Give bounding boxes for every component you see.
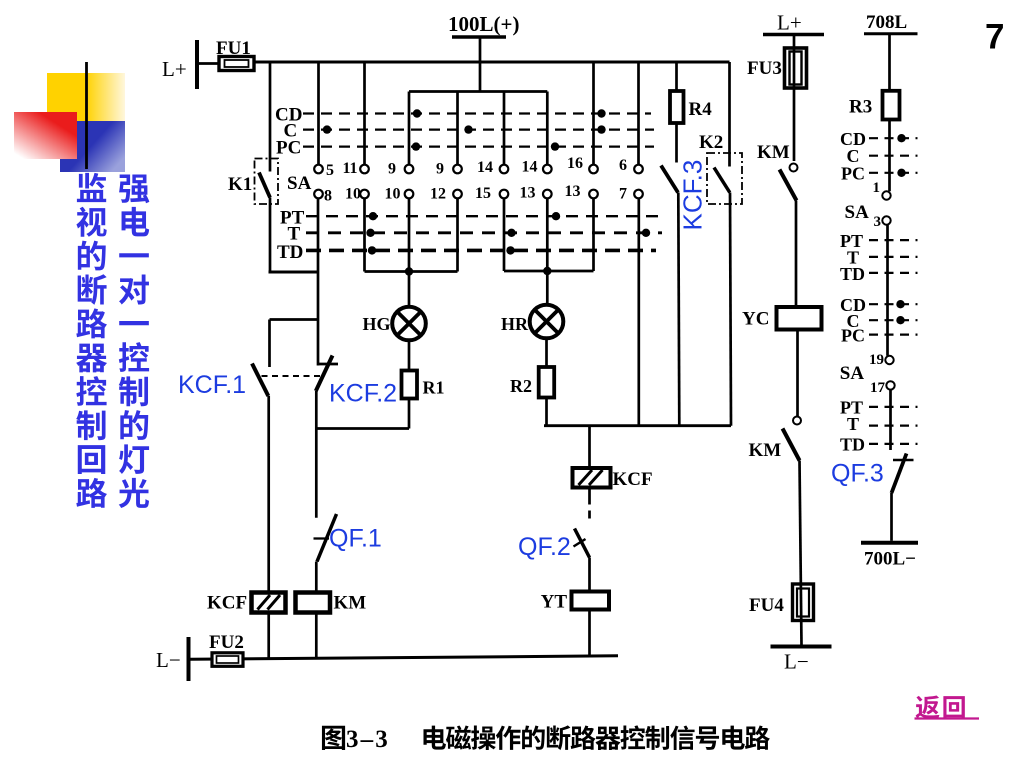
wire K1 bottom link <box>269 271 319 274</box>
wire R1 down <box>408 399 411 429</box>
wire dashed row CD <box>303 112 651 114</box>
SA contact terminal 9 (top row col 4) <box>453 165 462 174</box>
L+ right terminal bar <box>763 33 824 37</box>
wire KCF coil to bus <box>267 612 270 660</box>
svg-text:K2: K2 <box>699 132 723 153</box>
wire KCF.2 down to QF.1 <box>315 391 318 518</box>
relay K1 wire from bus <box>269 62 272 172</box>
700L- terminal bar <box>861 541 918 545</box>
wire col6 down to HR <box>546 198 549 305</box>
wire col4 down <box>456 198 459 271</box>
svg-text:7: 7 <box>985 18 1004 57</box>
svg-text:KCF: KCF <box>613 469 653 490</box>
contact QF.3 blade <box>892 454 907 494</box>
svg-text:TD: TD <box>840 264 865 284</box>
svg-text:19: 19 <box>869 352 884 368</box>
relay K1 contact blade <box>259 173 270 198</box>
svg-text:5: 5 <box>326 162 334 179</box>
fuse FU2 <box>212 653 243 667</box>
SA right contact 1 <box>882 191 890 199</box>
SA contact terminal 8 (bottom row col 1) <box>314 190 323 199</box>
L- terminal bar <box>187 637 191 681</box>
wire dashed rows right group3 <box>869 303 918 305</box>
svg-text:T: T <box>847 414 859 434</box>
svg-text:13: 13 <box>565 183 581 200</box>
wire KM coil to bus <box>315 611 318 659</box>
SA closed-position dots on rows <box>413 109 421 117</box>
contactor coil KM <box>296 593 331 613</box>
100L(+) terminal bar <box>452 35 506 39</box>
wire 100L(+) feed <box>479 37 482 92</box>
contact QF.3 tick <box>893 459 914 462</box>
wire dashed row C <box>303 129 654 131</box>
SA contact terminal 12 (bottom row col 4) <box>453 190 462 199</box>
wire bus to R4 <box>675 62 678 91</box>
wire bottom connector cols 15-13 <box>504 270 594 273</box>
wire bottom connector cols 10-12 <box>365 270 458 273</box>
svg-text:16: 16 <box>567 155 583 172</box>
wire HG to R1 <box>408 340 411 371</box>
logo yellow square <box>47 73 125 121</box>
wire dashed row T <box>306 231 662 234</box>
relay K2 contact blade <box>714 168 730 193</box>
svg-text:10: 10 <box>345 186 361 203</box>
svg-text:R4: R4 <box>689 99 713 120</box>
wire L+ to FU1 <box>197 62 219 65</box>
svg-text:PC: PC <box>841 326 865 346</box>
relay K2 box <box>707 153 742 204</box>
svg-text:L−: L− <box>156 648 181 672</box>
wire KM to FU4 <box>800 461 802 646</box>
fuse FU4 <box>793 584 814 621</box>
wire comb header <box>409 90 547 93</box>
SA contact terminal 11 (top row col 2) <box>360 165 369 174</box>
svg-text:3: 3 <box>346 726 359 753</box>
svg-text:L−: L− <box>784 650 809 674</box>
dots right group1 <box>897 134 905 142</box>
L- right terminal bar <box>771 645 832 649</box>
svg-text:7: 7 <box>619 186 627 203</box>
svg-text:10: 10 <box>385 186 401 203</box>
svg-text:SA: SA <box>840 363 865 384</box>
wire R4 down <box>675 123 678 163</box>
wire YT to negative bus <box>588 609 591 657</box>
contact QF.2 blade <box>575 529 590 558</box>
wire QF.1 to KM coil <box>315 562 318 593</box>
svg-text:L+: L+ <box>162 57 187 81</box>
wire bus drop x=593.5 <box>592 62 595 165</box>
svg-text:1: 1 <box>873 180 881 196</box>
wire QF.2 to YT <box>588 558 591 593</box>
svg-text:700L−: 700L− <box>864 549 916 570</box>
svg-text:8: 8 <box>324 188 332 205</box>
contact KCF.2 bar <box>318 363 339 366</box>
wire dashed rows right group4 <box>869 406 918 408</box>
svg-text:YT: YT <box>541 592 568 613</box>
relay coil KCF (right) <box>573 468 611 488</box>
svg-text:KM: KM <box>749 440 782 461</box>
svg-text:PC: PC <box>276 138 301 159</box>
wire YC down <box>796 330 799 417</box>
hyperlink 返回 (return) <box>916 695 940 718</box>
fuse FU1 <box>219 57 254 71</box>
wire KCF.1 upper <box>268 320 271 368</box>
svg-text:KM: KM <box>757 142 790 163</box>
svg-text:KCF.1: KCF.1 <box>178 371 246 399</box>
wire dashed rows right group2 <box>869 239 918 241</box>
wire KCF.1 top link <box>270 318 318 321</box>
SA contact terminal 15 (bottom row col 5) <box>500 190 509 199</box>
dots right group3 <box>896 300 904 308</box>
lamp HR <box>530 305 564 339</box>
relay coil KCF (left) <box>252 593 286 613</box>
wire comb drop x=547.3 <box>546 92 549 165</box>
wire col3 down to HG <box>408 198 411 307</box>
coil YT <box>572 592 610 610</box>
logo blue square <box>60 121 125 172</box>
svg-text:TD: TD <box>840 435 865 455</box>
SA contact terminal 5 (top row col 1) <box>314 165 323 174</box>
SA contact terminal 14 (top row col 5) <box>500 165 509 174</box>
wire 708L to R3 <box>888 34 891 91</box>
svg-text:QF.3: QF.3 <box>831 460 884 488</box>
node junction HG feed <box>405 267 413 275</box>
SA right contact 17 <box>886 381 894 389</box>
wire col5 down <box>503 198 506 271</box>
caption 图3-3 电磁操作的断路器控制信号电路 <box>322 726 345 750</box>
svg-text:KCF.3: KCF.3 <box>678 160 708 231</box>
svg-text:PC: PC <box>841 164 865 184</box>
svg-text:9: 9 <box>388 161 396 178</box>
SA contact terminal 16 (top row col 7) <box>589 165 598 174</box>
svg-text:KM: KM <box>334 593 367 614</box>
resistor R3 <box>883 91 900 120</box>
wire comb drop x=457.5 <box>456 92 459 165</box>
wire bus drop x=318.5 <box>317 62 320 165</box>
svg-text:SA: SA <box>845 202 870 223</box>
node junction HR feed <box>543 267 551 275</box>
svg-text:15: 15 <box>475 185 491 202</box>
wire bus drop x=638.5 <box>637 62 640 165</box>
wire connector to KCF coil <box>588 426 591 468</box>
svg-text:14: 14 <box>522 159 538 176</box>
wire right col mid2 <box>889 390 892 450</box>
svg-text:KCF: KCF <box>207 593 247 614</box>
wire KCF.3 down <box>678 193 679 426</box>
svg-text:TD: TD <box>277 242 303 263</box>
SA contact terminal 13 (bottom row col 7) <box>589 190 598 199</box>
wire bus to K2 <box>728 62 731 167</box>
svg-text:3: 3 <box>375 726 388 753</box>
wire dashed rows right group1 <box>869 137 918 139</box>
wire comb drop x=409 <box>408 92 411 165</box>
contact KM upper <box>790 164 798 172</box>
wire bus drop x=364.5 <box>363 62 366 165</box>
wire KCF coil down <box>588 488 591 505</box>
wire col2 down <box>363 198 366 271</box>
svg-text:R2: R2 <box>510 376 532 396</box>
svg-text:14: 14 <box>477 159 493 176</box>
contact KCF.2 blade <box>316 356 333 392</box>
contact KCF.1 blade <box>252 364 268 397</box>
svg-text:FU3: FU3 <box>747 58 782 79</box>
svg-text:YC: YC <box>742 309 769 330</box>
vertical blue text column: 强电一对一控制的灯光 <box>119 174 149 203</box>
wire KM to YC <box>795 201 798 308</box>
wire R3 down <box>888 120 891 192</box>
wire dashed row TD <box>306 249 656 253</box>
SA contact terminal 14 (top row col 6) <box>543 165 552 174</box>
svg-text:QF.1: QF.1 <box>329 525 382 553</box>
svg-text:HR: HR <box>501 314 529 334</box>
lamp HG <box>392 307 426 341</box>
SA contact terminal 9 (top row col 3) <box>405 165 414 174</box>
svg-text:K1: K1 <box>228 174 252 195</box>
wire col8 down <box>637 198 640 425</box>
svg-text:FU2: FU2 <box>209 632 244 653</box>
SA contact terminal 6 (top row col 8) <box>634 165 643 174</box>
svg-text:L+: L+ <box>777 11 802 35</box>
svg-text:FU4: FU4 <box>749 595 784 616</box>
contact QF.1 tick <box>314 537 330 539</box>
vertical blue text column: 监视的断路器控制回路 <box>77 173 106 202</box>
fuse FU3 <box>785 48 807 88</box>
svg-text:R3: R3 <box>849 97 872 118</box>
svg-text:708L: 708L <box>866 12 907 33</box>
L+ terminal bar <box>195 40 199 89</box>
coil YC <box>777 307 822 330</box>
relay K1 box <box>255 159 279 205</box>
SA contact terminal 10 (bottom row col 3) <box>405 190 414 199</box>
SA right contact 3 <box>882 216 890 224</box>
svg-text:–: – <box>360 726 374 753</box>
wire R2 down <box>545 398 548 426</box>
svg-text:9: 9 <box>436 161 444 178</box>
contact KCF.3 blade <box>661 166 678 193</box>
wire col1 down to KCF.2 <box>317 198 320 365</box>
wire QF.3 down <box>890 493 893 541</box>
svg-text:HG: HG <box>362 314 390 334</box>
logo red square <box>14 112 77 159</box>
wire col7 down <box>592 198 595 271</box>
relay K1 wire below <box>269 198 272 273</box>
wire negative bus <box>190 656 618 660</box>
SA right contact 19 <box>885 356 893 364</box>
wire R1 bottom connector <box>316 427 409 430</box>
svg-text:11: 11 <box>342 160 357 177</box>
svg-text:100L(+): 100L(+) <box>448 12 519 36</box>
wire dashed row PT <box>306 215 658 217</box>
wire main positive bus <box>254 61 730 64</box>
resistor R1 <box>402 371 418 399</box>
svg-text:KCF.2: KCF.2 <box>329 380 397 408</box>
svg-text:QF.2: QF.2 <box>518 533 571 561</box>
svg-text:3: 3 <box>874 214 882 230</box>
contact QF.1 blade <box>317 514 337 562</box>
wire right col mid1 <box>886 225 889 356</box>
SA contact terminal 10 (bottom row col 2) <box>360 190 369 199</box>
wire dashed row PC <box>303 146 654 148</box>
SA contact terminal 13 (bottom row col 6) <box>543 190 552 199</box>
svg-text:SA: SA <box>287 173 312 194</box>
svg-text:6: 6 <box>619 157 627 174</box>
svg-text:12: 12 <box>430 186 446 203</box>
wire signal bus connector <box>544 424 731 427</box>
logo vertical line <box>85 62 88 169</box>
wire KCF.1 to KCF coil <box>267 396 270 593</box>
wire K2 down <box>730 193 731 426</box>
svg-text:R1: R1 <box>423 378 445 398</box>
resistor R4 <box>670 91 684 123</box>
SA contact terminal 7 (bottom row col 8) <box>634 190 643 199</box>
708L terminal bar <box>864 32 918 35</box>
wire L+ to FU3 <box>793 35 796 162</box>
wire comb drop x=504 <box>503 92 506 165</box>
wire HR to R2 <box>545 338 548 367</box>
svg-text:13: 13 <box>520 185 536 202</box>
contact KM lower <box>793 417 801 425</box>
svg-text:17: 17 <box>870 380 886 396</box>
mechanical dashed link KCF.1-KCF.2 <box>262 375 322 377</box>
resistor R2 <box>539 367 555 398</box>
